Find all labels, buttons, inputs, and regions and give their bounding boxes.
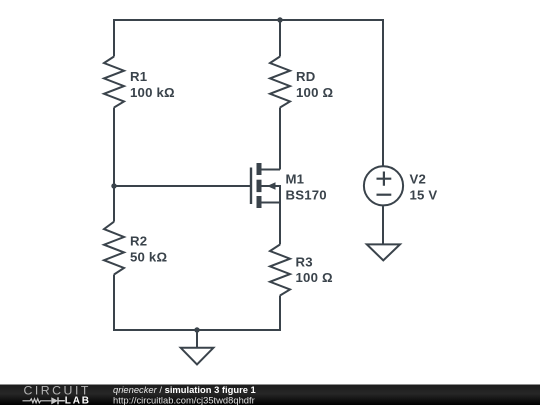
M1 channel bar top (drain side) xyxy=(257,163,262,175)
M1 source connection wire xyxy=(259,202,280,204)
wire right branch upper (top net to V2) xyxy=(382,19,384,166)
node junction gate tap on left branch xyxy=(111,183,116,188)
svg-text:qrienecker / simulation 3 figu: qrienecker / simulation 3 figure 1 xyxy=(113,384,256,395)
svg-text:R2: R2 xyxy=(130,234,147,249)
resistor RD xyxy=(270,57,290,108)
svg-text:V2: V2 xyxy=(410,172,427,187)
wire ground stem (bottom net to ground symbol) xyxy=(196,330,198,348)
svg-text:http://circuitlab.com/cj35twd8: http://circuitlab.com/cj35twd8qhdfr xyxy=(113,395,255,405)
V2 plus sign xyxy=(377,172,392,186)
M1 gate vertical line xyxy=(250,168,252,205)
footer bar xyxy=(0,385,540,405)
wire V2 negative to ground xyxy=(382,206,384,244)
svg-text:R3: R3 xyxy=(296,255,313,270)
V2 circle body xyxy=(364,166,403,205)
wire middle branch lower (R3 bottom to bottom net) xyxy=(279,296,281,332)
resistor R1 xyxy=(104,57,124,108)
M1 body arrowhead pointing to channel xyxy=(267,182,276,189)
svg-text:15 V: 15 V xyxy=(410,188,438,203)
wire left branch middle (R1 bottom to R2 top) xyxy=(113,108,115,222)
svg-text:100 kΩ: 100 kΩ xyxy=(130,85,175,100)
transistor M1 (N-MOSFET BS170) xyxy=(251,163,280,208)
svg-text:100 Ω: 100 Ω xyxy=(296,85,333,100)
V2 minus sign xyxy=(377,194,392,196)
resistor R3 xyxy=(270,245,290,296)
wire source net (M1 source to R3 top) xyxy=(279,203,281,245)
M1 body connection wire with source tie xyxy=(261,186,280,203)
wire gate net (left branch to M1 gate) xyxy=(114,185,250,187)
ground symbol (V2) xyxy=(367,244,400,260)
wire top net (R1 top to V2 top) xyxy=(114,19,383,21)
node junction ground tap on bottom net xyxy=(194,327,199,332)
resistor R2 xyxy=(104,222,124,275)
M1 channel bar bottom (source side) xyxy=(257,196,262,208)
svg-text:M1: M1 xyxy=(286,172,305,187)
svg-text:50 kΩ: 50 kΩ xyxy=(130,250,167,265)
wire bottom net (left branch to R3 branch) xyxy=(114,329,280,331)
svg-text:LAB: LAB xyxy=(65,395,91,405)
CircuitLab logo schematic squiggle (resistor and diode) xyxy=(23,397,65,404)
wire left branch lower (R2 bottom to bottom net) xyxy=(113,275,115,332)
svg-text:R1: R1 xyxy=(130,69,147,84)
wire left branch upper (top wire to R1) xyxy=(113,19,115,57)
svg-text:100 Ω: 100 Ω xyxy=(296,270,333,285)
node junction at top of RD branch xyxy=(277,17,282,22)
svg-text:RD: RD xyxy=(296,69,315,84)
wire drain net (RD bottom to M1 drain) xyxy=(279,108,281,170)
M1 drain connection wire xyxy=(259,169,280,171)
wire middle branch upper (top net to RD) xyxy=(279,20,281,57)
svg-text:BS170: BS170 xyxy=(286,188,327,203)
ground symbol (bottom net) xyxy=(181,348,214,365)
M1 channel bar middle (body) xyxy=(257,180,262,192)
voltage source V2 xyxy=(364,166,403,205)
